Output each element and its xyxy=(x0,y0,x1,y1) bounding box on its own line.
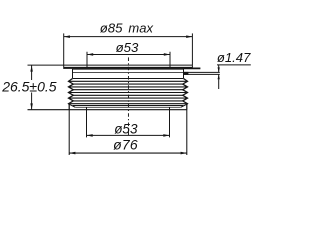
svg-text:max: max xyxy=(128,21,153,36)
svg-text:ø53: ø53 xyxy=(116,40,139,55)
svg-text:ø53: ø53 xyxy=(114,121,138,136)
svg-text:ø1.47: ø1.47 xyxy=(217,50,251,65)
svg-text:26.5±0.5: 26.5±0.5 xyxy=(1,78,57,94)
svg-text:ø76: ø76 xyxy=(113,137,138,153)
svg-text:ø85: ø85 xyxy=(100,21,123,36)
